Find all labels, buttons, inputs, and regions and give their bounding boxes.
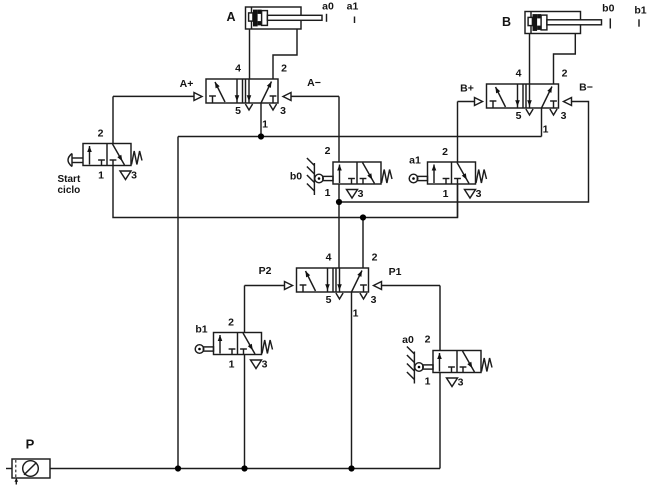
svg-text:b0: b0 (602, 3, 614, 15)
svg-text:2: 2 (228, 317, 234, 329)
svg-text:a1: a1 (347, 1, 359, 13)
svg-text:3: 3 (458, 377, 464, 389)
air supply P (6, 468, 12, 470)
svg-text:1: 1 (543, 124, 549, 136)
svg-text:3: 3 (358, 188, 364, 200)
svg-text:b1: b1 (195, 324, 207, 336)
valve A exhaust chevrons (245, 104, 252, 110)
cylinder B barrel (525, 12, 581, 34)
cylinder A piston (253, 10, 258, 27)
svg-text:a0: a0 (402, 334, 414, 346)
valve memory exhaust chevrons (336, 293, 343, 299)
wire P1 pilot from a0 port 2 (382, 285, 441, 287)
valve memory 5/2 body (297, 268, 369, 292)
wire cylinder A right port to valve A port 2 (273, 29, 297, 79)
svg-text:4: 4 (516, 68, 522, 80)
valve b0 spring return (382, 170, 393, 184)
valve b1 3/2 body (214, 333, 262, 355)
wire memory port 1 to bus (351, 292, 353, 469)
valve memory pilots (285, 282, 293, 290)
valve Start exhaust port 3 (120, 171, 131, 180)
cylinder B piston (533, 14, 538, 31)
svg-text:A−: A− (307, 77, 321, 89)
wire b1 port 1 to bus (244, 355, 246, 469)
valve b0 3/2 body (333, 162, 381, 184)
cylinder A piston plate (262, 11, 268, 26)
svg-text:P1: P1 (389, 266, 402, 278)
svg-text:2: 2 (98, 128, 104, 140)
svg-text:b0: b0 (290, 171, 302, 183)
valve b0 exhaust port 3 (347, 190, 358, 199)
junction node memory supply (348, 465, 354, 471)
svg-text:a0: a0 (322, 1, 334, 13)
svg-text:2: 2 (325, 145, 331, 157)
wire B+ pilot from a1 port 2 (458, 101, 475, 103)
valve B 5/2 body (487, 84, 559, 108)
wire A+ pilot from Start valve port 2 (113, 95, 194, 97)
svg-text:1: 1 (443, 188, 449, 200)
push button actuator (71, 154, 73, 167)
wire a1 port 1 riser (457, 184, 459, 218)
wire cylinder B left port to valve B port 4 (529, 34, 531, 84)
valve B exhaust chevrons (526, 109, 533, 115)
svg-text:5: 5 (235, 105, 241, 117)
svg-text:P: P (26, 437, 35, 452)
valve Start spring return (132, 151, 143, 165)
wire a0 port 1 to bus (439, 373, 441, 469)
svg-text:3: 3 (280, 105, 286, 117)
valve a1 exhaust port 3 (465, 190, 476, 199)
wire A- pilot from b0 port 2 (291, 95, 339, 97)
svg-text:3: 3 (371, 294, 377, 306)
svg-text:P2: P2 (259, 265, 272, 277)
valve A 5/2 body (206, 79, 278, 103)
svg-text:B+: B+ (460, 83, 474, 95)
svg-text:B−: B− (579, 82, 593, 94)
wire cylinder B right port to valve B port 2 (554, 34, 576, 84)
junction node valve A port 1 / bus (258, 133, 264, 139)
wire valve A port 1 (260, 103, 262, 137)
wire group line to B- pilot (339, 102, 589, 203)
valve A pilots (194, 93, 202, 101)
valve b1 exhaust port 3 (251, 360, 262, 369)
svg-text:a1: a1 (409, 155, 421, 167)
svg-text:1: 1 (229, 359, 235, 371)
junction node bus riser (175, 465, 181, 471)
valve a1 spring return (476, 170, 487, 184)
wire P2 pilot from b1 port 2 (245, 285, 285, 287)
wire memory port 2 riser (362, 218, 364, 269)
cylinder A piston rod (267, 15, 322, 20)
junction node group line (336, 199, 342, 205)
svg-text:2: 2 (372, 252, 378, 264)
valve Start 3/2 body (83, 144, 131, 166)
svg-text:3: 3 (262, 359, 268, 371)
pressure bus to valves A and B (178, 136, 542, 138)
valve b1 spring return (262, 340, 273, 354)
svg-text:1: 1 (262, 119, 268, 131)
supply arrow marker (15, 480, 17, 485)
svg-text:4: 4 (235, 63, 241, 75)
junction node memory port 2 / bus (360, 214, 366, 220)
wire b0 port 1 to memory port 4 (338, 184, 340, 268)
svg-text:3: 3 (131, 170, 137, 182)
svg-text:1: 1 (353, 308, 359, 320)
svg-text:5: 5 (516, 110, 522, 122)
cylinder A port notch (249, 13, 253, 21)
svg-text:ciclo: ciclo (58, 185, 81, 196)
svg-text:1: 1 (98, 170, 104, 182)
svg-text:b1: b1 (634, 5, 646, 17)
valve B pilots (475, 98, 483, 106)
svg-text:1: 1 (325, 187, 331, 199)
bottom pressure bus (50, 468, 440, 470)
wire Start valve port 1 to bus (113, 166, 458, 218)
wire cylinder A left port to valve A port 4 (249, 29, 251, 79)
svg-text:2: 2 (281, 63, 287, 75)
cylinder A barrel (246, 7, 302, 29)
svg-text:2: 2 (562, 68, 568, 80)
valve a0 3/2 body (433, 351, 481, 373)
junction node b1 supply (241, 465, 247, 471)
svg-text:4: 4 (326, 252, 332, 264)
cylinder B piston plate (541, 15, 547, 30)
cylinder B port notch (528, 17, 532, 25)
svg-text:A: A (226, 10, 235, 24)
svg-text:2: 2 (425, 334, 431, 346)
valve a0 spring return (482, 358, 493, 372)
svg-text:Start: Start (58, 174, 81, 185)
svg-text:2: 2 (442, 146, 448, 158)
svg-text:B: B (502, 15, 511, 29)
svg-text:A+: A+ (180, 78, 194, 90)
cylinder B piston rod (547, 20, 602, 25)
svg-text:3: 3 (561, 110, 567, 122)
valve a0 exhaust port 3 (447, 378, 458, 387)
svg-text:1: 1 (425, 376, 431, 388)
valve a1 3/2 body (428, 162, 476, 184)
svg-text:5: 5 (326, 294, 332, 306)
svg-text:3: 3 (476, 188, 482, 200)
